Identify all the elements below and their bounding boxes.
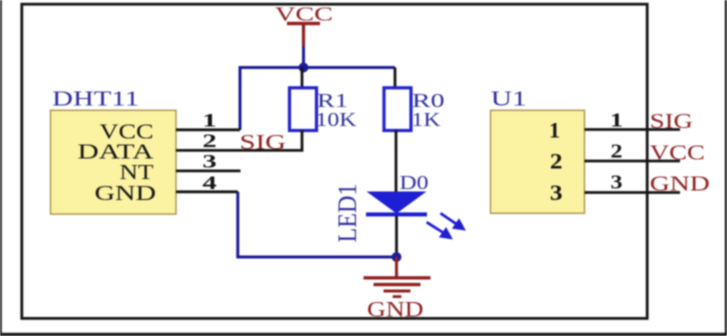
U1 pin 1 wire (585, 128, 681, 131)
svg-text:GND: GND (367, 296, 424, 321)
svg-text:2: 2 (202, 132, 216, 152)
svg-text:DHT11: DHT11 (52, 86, 139, 110)
wire bottom horizontal net (236, 256, 396, 259)
svg-text:3: 3 (202, 152, 216, 172)
svg-text:4: 4 (202, 174, 216, 194)
U1 pin 2 wire (585, 160, 681, 163)
pin 4 number (202, 174, 216, 194)
svg-text:3: 3 (610, 170, 622, 193)
LED light arrow 2 (427, 222, 452, 239)
U1 pad number 2 (550, 150, 563, 174)
screenshot bottom strip (0, 333, 727, 336)
wire top horizontal net (240, 66, 395, 69)
svg-text:1: 1 (202, 111, 216, 131)
svg-text:1K: 1K (412, 109, 442, 131)
pin 1 number (202, 111, 216, 131)
U1 pad number 3 (550, 181, 563, 205)
wire R0 top drop (394, 68, 397, 90)
pin 3 number (202, 152, 216, 172)
LED cathode bar (366, 212, 427, 216)
ground bar 3 (384, 290, 411, 293)
ground bar 1 (364, 276, 431, 279)
resistor R1 (290, 88, 317, 131)
ground bar 4 (393, 295, 402, 298)
resistor R0 (384, 88, 411, 131)
svg-text:SIG: SIG (240, 130, 287, 154)
svg-text:LED1: LED1 (333, 184, 362, 243)
svg-text:1: 1 (610, 109, 623, 131)
svg-text:GND: GND (95, 181, 157, 205)
wire LED to junction (395, 216, 398, 257)
screenshot right edge (725, 0, 727, 336)
svg-text:SIG: SIG (650, 109, 693, 133)
U1 pin 3 wire (585, 191, 681, 194)
pin 2 wire (176, 149, 303, 152)
svg-text:2: 2 (550, 150, 563, 174)
pin 1 wire (176, 128, 240, 131)
svg-text:GND: GND (650, 171, 710, 195)
wire VCC stem (blue) (302, 47, 305, 67)
svg-text:D0: D0 (400, 172, 429, 194)
pin 4 wire (176, 190, 238, 193)
power VCC stem (red) (302, 25, 305, 47)
wire R1 top lead (301, 68, 304, 90)
junction at VCC net (299, 63, 309, 73)
power VCC bar (287, 22, 320, 25)
wire R1 bottom lead (301, 130, 304, 150)
wire R0 to LED (395, 130, 398, 192)
svg-text:2: 2 (610, 139, 622, 162)
LED D0 triangle (367, 192, 427, 214)
svg-text:VCC: VCC (650, 141, 705, 165)
component DHT11 body (51, 110, 177, 214)
svg-text:3: 3 (550, 181, 563, 205)
wire left vertical from pin4 (236, 192, 239, 257)
component U1 body (491, 110, 585, 213)
U1 pin 2 number (610, 139, 622, 162)
junction at ground net (392, 252, 402, 262)
wire left vertical to pin1 (239, 66, 242, 130)
screenshot left edge (0, 0, 2, 336)
ground bar 2 (374, 283, 421, 286)
LED light arrow 1 (441, 213, 466, 230)
svg-text:10K: 10K (316, 109, 358, 131)
svg-text:U1: U1 (491, 87, 527, 111)
pin 3 wire (176, 169, 241, 172)
U1 pin 1 number (610, 109, 623, 131)
svg-text:1: 1 (549, 118, 560, 143)
U1 pin 3 number (610, 170, 622, 193)
pin 2 number (202, 132, 216, 152)
ground stem (395, 257, 398, 277)
